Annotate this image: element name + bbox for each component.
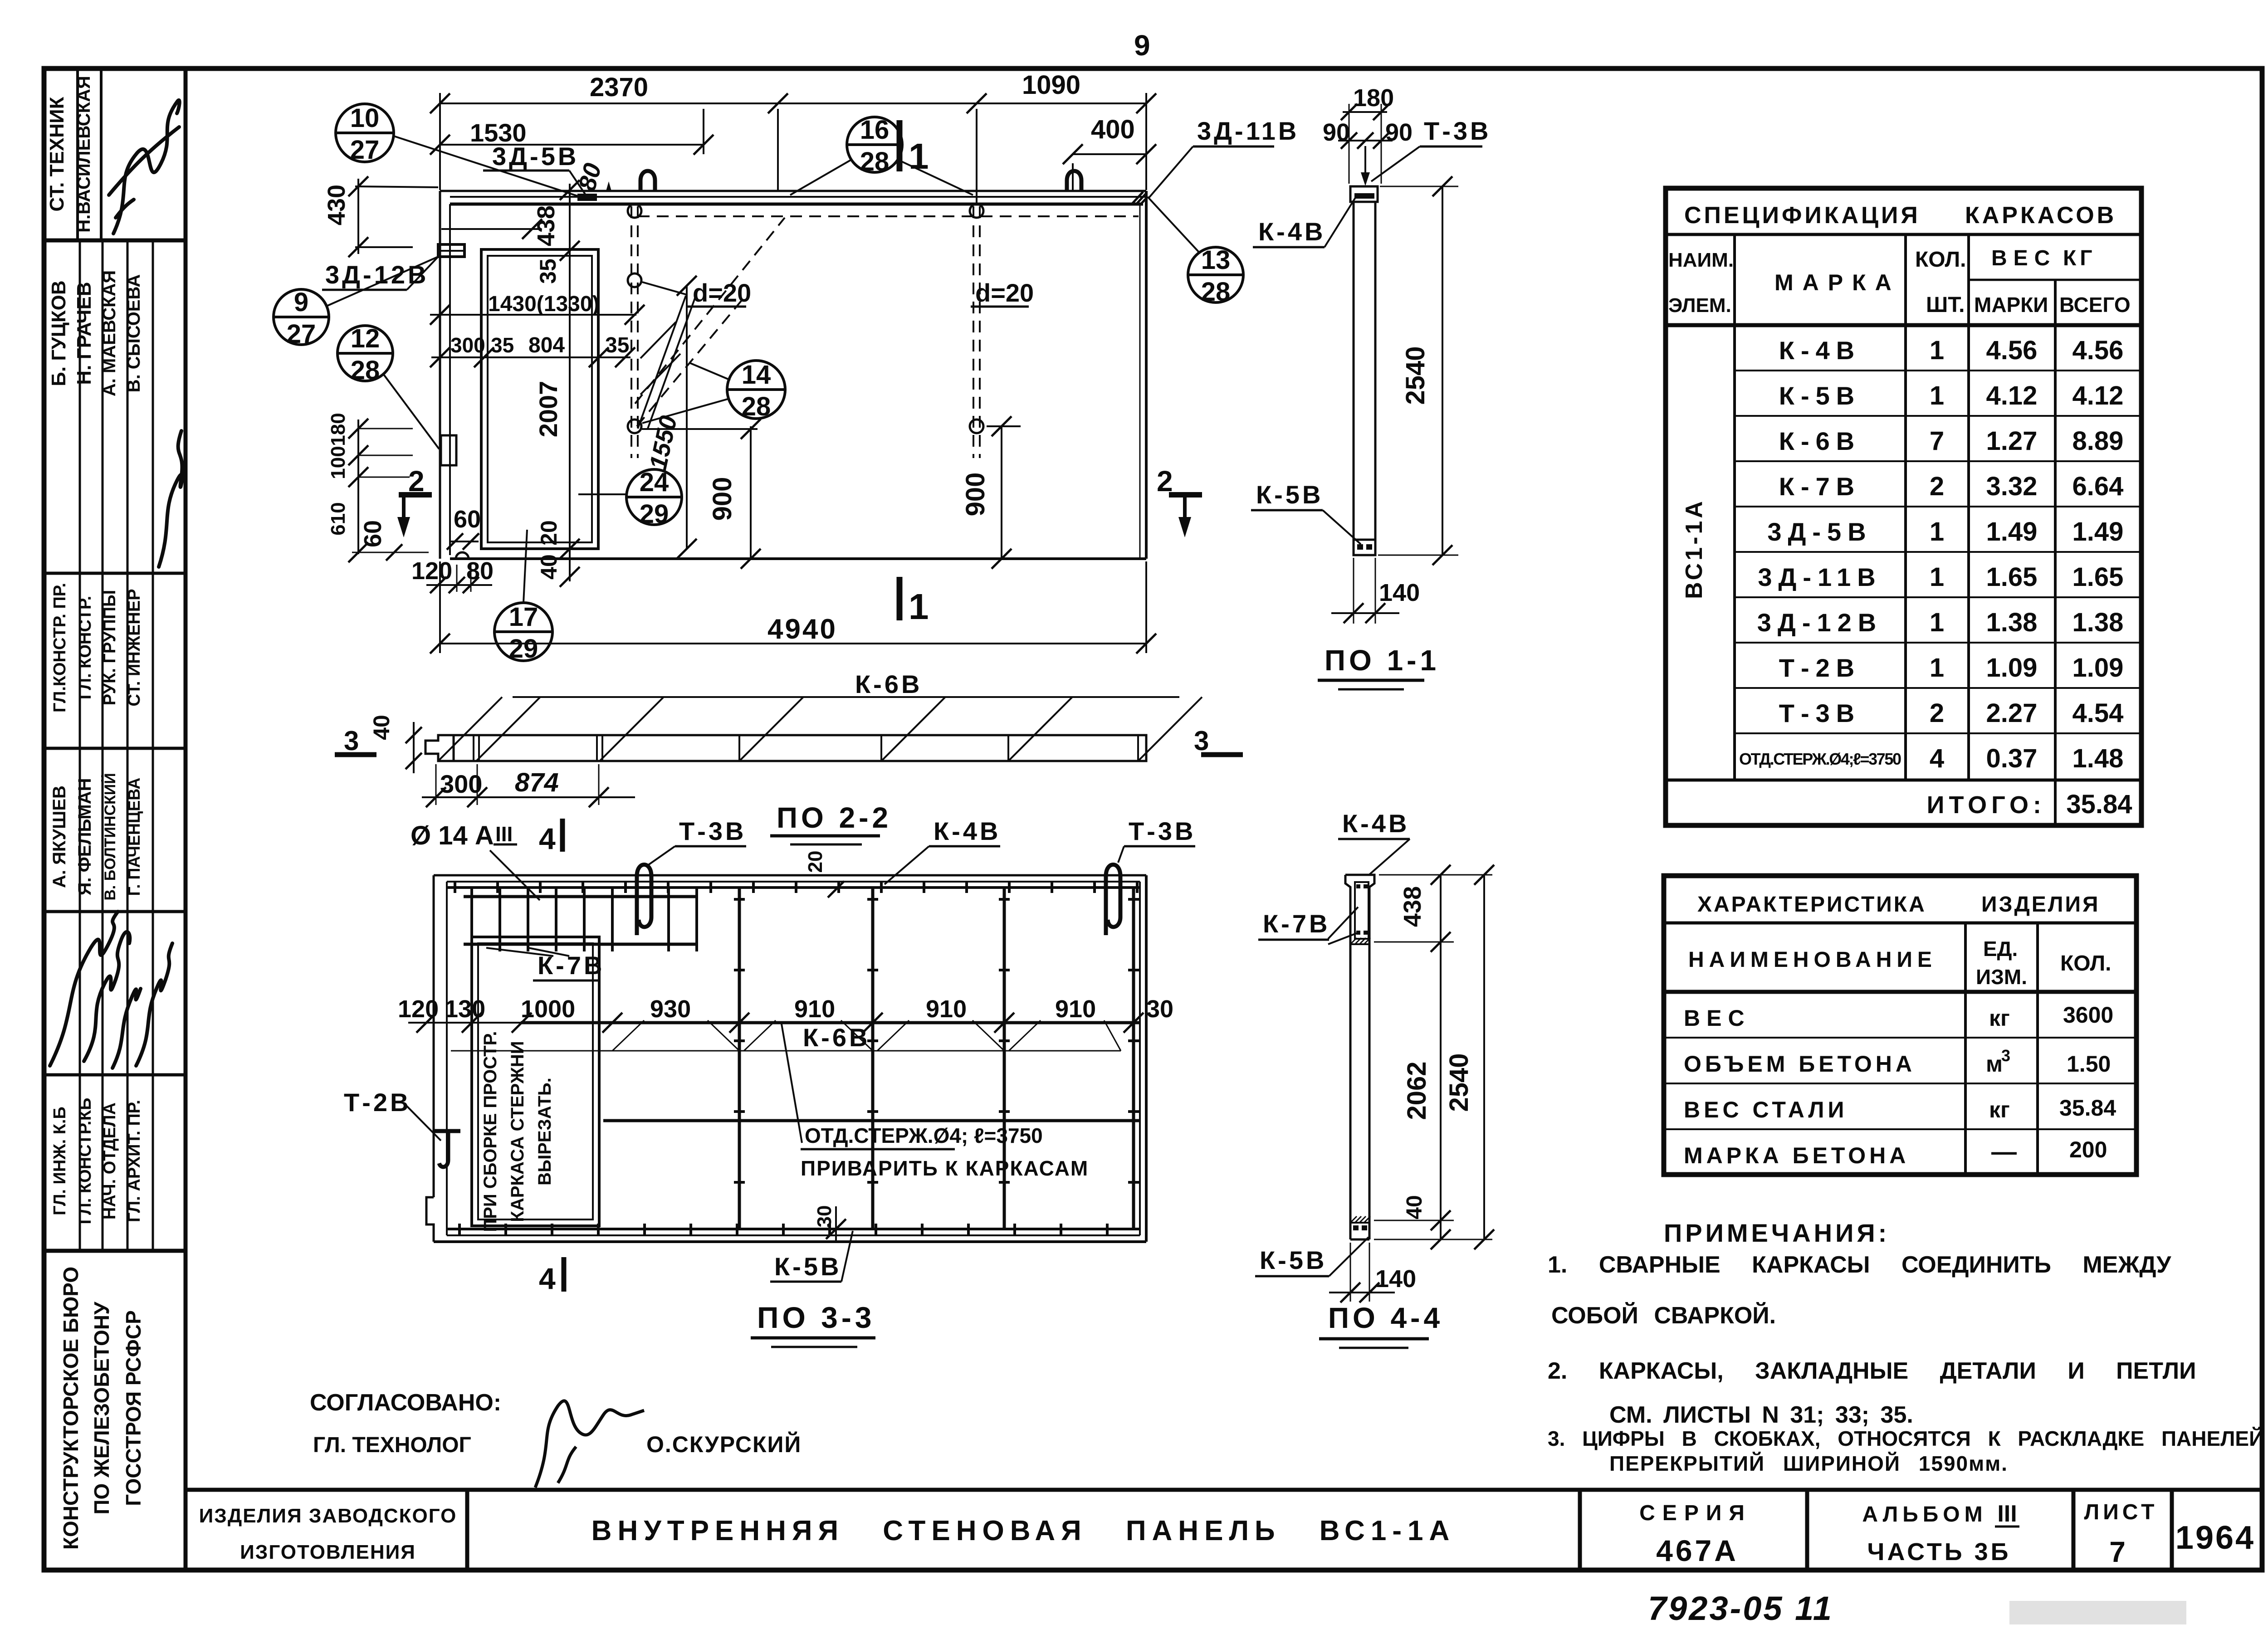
svg-text:4.56: 4.56 <box>1986 336 2038 365</box>
svg-text:27: 27 <box>350 135 380 165</box>
svg-text:МАРКА БЕТОНА: МАРКА БЕТОНА <box>1684 1143 1909 1168</box>
svg-text:1964: 1964 <box>2175 1520 2255 1556</box>
svg-text:В. БОЛТИНСКИЙ: В. БОЛТИНСКИЙ <box>101 773 119 900</box>
svg-text:ХАРАКТЕРИСТИКА: ХАРАКТЕРИСТИКА <box>1697 893 1926 917</box>
svg-text:180: 180 <box>1353 84 1394 112</box>
svg-text:1.38: 1.38 <box>1986 608 2038 637</box>
svg-text:Т-3В: Т-3В <box>1424 117 1491 145</box>
svg-text:28: 28 <box>860 147 890 176</box>
svg-text:140: 140 <box>1379 579 1420 606</box>
svg-text:РУК. ГРУППЫ: РУК. ГРУППЫ <box>100 590 119 706</box>
svg-text:4.12: 4.12 <box>2072 381 2124 410</box>
svg-text:ГЛ. ИНЖ. К.Б: ГЛ. ИНЖ. К.Б <box>50 1107 69 1215</box>
svg-text:7: 7 <box>2109 1536 2126 1568</box>
svg-text:К-5В: К-5В <box>1256 480 1323 509</box>
svg-text:35: 35 <box>605 333 629 357</box>
svg-text:—: — <box>1991 1137 2017 1166</box>
svg-text:16: 16 <box>860 115 890 145</box>
svg-text:28: 28 <box>351 356 380 385</box>
svg-text:СМ. ЛИСТЫ N 31; 33; 35.: СМ. ЛИСТЫ N 31; 33; 35. <box>1609 1402 1913 1428</box>
svg-text:ВЕС: ВЕС <box>1684 1005 1751 1031</box>
svg-text:874: 874 <box>515 768 559 797</box>
svg-text:ПРИМЕЧАНИЯ:: ПРИМЕЧАНИЯ: <box>1664 1219 1890 1247</box>
svg-text:910: 910 <box>926 995 967 1023</box>
svg-text:27: 27 <box>287 319 316 349</box>
svg-text:ЭЛЕМ.: ЭЛЕМ. <box>1668 294 1731 317</box>
svg-text:0.37: 0.37 <box>1986 744 2038 773</box>
svg-text:d=20: d=20 <box>975 278 1034 307</box>
svg-text:НАЧ. ОТДЕЛА: НАЧ. ОТДЕЛА <box>100 1102 119 1219</box>
svg-text:III: III <box>1997 1501 2017 1527</box>
svg-text:300: 300 <box>440 770 482 798</box>
svg-text:1: 1 <box>1930 608 1944 637</box>
svg-text:МАРКА: МАРКА <box>1774 270 1901 295</box>
svg-text:К-6В: К-6В <box>1779 427 1861 455</box>
svg-text:35: 35 <box>535 259 561 284</box>
svg-text:1.49: 1.49 <box>2072 517 2124 546</box>
svg-text:930: 930 <box>650 995 691 1023</box>
svg-text:60: 60 <box>359 520 386 547</box>
svg-text:35.84: 35.84 <box>2059 1095 2116 1121</box>
svg-text:НАИМЕНОВАНИЕ: НАИМЕНОВАНИЕ <box>1688 948 1937 972</box>
svg-text:К-4В: К-4В <box>1342 809 1409 838</box>
svg-text:910: 910 <box>1055 995 1096 1023</box>
svg-text:ПЕРЕКРЫТИЙ ШИРИНОЙ 1590мм.: ПЕРЕКРЫТИЙ ШИРИНОЙ 1590мм. <box>1609 1452 2008 1475</box>
svg-text:КОНСТРУКТОРСКОЕ БЮРО: КОНСТРУКТОРСКОЕ БЮРО <box>59 1267 83 1550</box>
svg-text:КГ: КГ <box>2063 246 2096 270</box>
svg-text:35.84: 35.84 <box>2066 790 2132 819</box>
svg-text:ОБЪЕМ БЕТОНА: ОБЪЕМ БЕТОНА <box>1684 1051 1916 1077</box>
svg-text:400: 400 <box>1091 115 1135 144</box>
svg-text:1: 1 <box>1930 562 1944 592</box>
svg-text:ЛИСТ: ЛИСТ <box>2084 1500 2158 1524</box>
svg-text:24: 24 <box>640 468 669 497</box>
svg-text:ШТ.: ШТ. <box>1926 293 1965 317</box>
svg-text:14: 14 <box>742 360 771 390</box>
svg-text:1: 1 <box>1930 517 1944 546</box>
svg-text:К-5В: К-5В <box>1260 1246 1327 1274</box>
svg-text:Т-3В: Т-3В <box>1129 817 1196 845</box>
svg-text:ГОССТРОЯ РСФСР: ГОССТРОЯ РСФСР <box>122 1310 145 1506</box>
svg-text:1: 1 <box>1930 381 1944 410</box>
svg-text:ВЕС: ВЕС <box>1991 246 2056 270</box>
svg-text:2370: 2370 <box>590 73 648 102</box>
svg-text:ИЗДЕЛИЯ ЗАВОДСКОГО: ИЗДЕЛИЯ ЗАВОДСКОГО <box>199 1505 457 1527</box>
svg-text:2540: 2540 <box>1444 1053 1474 1112</box>
svg-text:60: 60 <box>454 506 481 533</box>
svg-text:ГЛ. АРХИТ. ПР.: ГЛ. АРХИТ. ПР. <box>125 1100 144 1222</box>
svg-text:20: 20 <box>804 851 826 873</box>
svg-text:Т-3В: Т-3В <box>1779 699 1861 727</box>
svg-text:К-5В: К-5В <box>774 1252 841 1281</box>
svg-text:2540: 2540 <box>1401 346 1430 405</box>
svg-text:28: 28 <box>742 392 771 421</box>
svg-text:3600: 3600 <box>2063 1002 2113 1028</box>
svg-text:200: 200 <box>2069 1137 2107 1162</box>
svg-text:1.09: 1.09 <box>2072 653 2124 683</box>
svg-text:ГЛ. ТЕХНОЛОГ: ГЛ. ТЕХНОЛОГ <box>313 1433 471 1457</box>
svg-text:3Д-5В: 3Д-5В <box>1767 517 1872 546</box>
svg-text:ИЗГОТОВЛЕНИЯ: ИЗГОТОВЛЕНИЯ <box>240 1541 416 1563</box>
svg-text:1.09: 1.09 <box>1986 653 2038 683</box>
svg-text:140: 140 <box>1375 1265 1416 1293</box>
svg-text:КОЛ.: КОЛ. <box>1915 248 1966 272</box>
svg-text:ОТД.СТЕРЖ.Ø4; ℓ=3750: ОТД.СТЕРЖ.Ø4; ℓ=3750 <box>805 1124 1043 1147</box>
svg-text:ИЗДЕЛИЯ: ИЗДЕЛИЯ <box>1981 893 2100 917</box>
svg-text:Г. ПАЧЕНЦЕВА: Г. ПАЧЕНЦЕВА <box>125 778 143 896</box>
svg-text:6.64: 6.64 <box>2072 472 2124 501</box>
svg-text:610: 610 <box>327 502 349 535</box>
svg-text:1090: 1090 <box>1022 70 1080 100</box>
svg-text:КАРКАСА СТЕРЖНИ: КАРКАСА СТЕРЖНИ <box>508 1041 528 1222</box>
svg-text:2: 2 <box>1930 472 1944 501</box>
svg-text:3Д-12В: 3Д-12В <box>325 260 429 289</box>
svg-text:d=20: d=20 <box>693 278 751 307</box>
svg-text:900: 900 <box>961 473 990 517</box>
svg-text:2: 2 <box>1930 698 1944 728</box>
svg-text:кг: кг <box>1989 1005 2010 1031</box>
svg-text:1000: 1000 <box>521 995 575 1023</box>
svg-text:К-6В: К-6В <box>855 670 922 698</box>
svg-text:3: 3 <box>344 726 359 756</box>
svg-text:4: 4 <box>539 1262 556 1295</box>
svg-text:1.50: 1.50 <box>2067 1051 2111 1077</box>
svg-text:4.12: 4.12 <box>1986 381 2038 410</box>
svg-text:130: 130 <box>445 995 485 1023</box>
svg-text:40: 40 <box>369 715 394 740</box>
svg-text:К-4В: К-4В <box>1258 217 1325 246</box>
svg-text:40: 40 <box>536 554 562 580</box>
svg-text:438: 438 <box>533 205 560 246</box>
svg-text:90: 90 <box>1323 119 1350 146</box>
svg-text:1430(1330): 1430(1330) <box>488 292 600 316</box>
svg-text:28: 28 <box>1201 277 1231 307</box>
svg-text:2062: 2062 <box>1402 1061 1432 1120</box>
svg-text:12: 12 <box>351 324 380 353</box>
svg-text:430: 430 <box>323 185 350 225</box>
svg-text:К-6В: К-6В <box>803 1023 870 1052</box>
svg-text:4: 4 <box>539 822 556 855</box>
svg-text:ПО 4-4: ПО 4-4 <box>1328 1302 1443 1334</box>
svg-text:180: 180 <box>327 413 349 446</box>
svg-text:СТ. ТЕХНИК: СТ. ТЕХНИК <box>46 97 68 211</box>
svg-text:7: 7 <box>1930 426 1944 456</box>
svg-text:1: 1 <box>1930 336 1944 365</box>
svg-text:ВЕС СТАЛИ: ВЕС СТАЛИ <box>1684 1097 1848 1122</box>
svg-text:К-7В: К-7В <box>1779 472 1861 501</box>
svg-text:МАРКИ: МАРКИ <box>1974 293 2048 317</box>
svg-text:ПО ЖЕЛЕЗОБЕТОНУ: ПО ЖЕЛЕЗОБЕТОНУ <box>90 1301 113 1515</box>
svg-text:3: 3 <box>2001 1046 2010 1065</box>
svg-text:Н.ВАСИЛЕВСКАЯ: Н.ВАСИЛЕВСКАЯ <box>74 76 94 232</box>
svg-text:1: 1 <box>909 586 929 627</box>
svg-text:ВНУТРЕННЯЯ СТЕНОВАЯ ПАНЕЛЬ ВС1: ВНУТРЕННЯЯ СТЕНОВАЯ ПАНЕЛЬ ВС1-1А <box>591 1515 1456 1546</box>
svg-text:3. ЦИФРЫ В СКОБКАХ, ОТНОСЯТСЯ: 3. ЦИФРЫ В СКОБКАХ, ОТНОСЯТСЯ К РАСКЛАДК… <box>1548 1427 2264 1450</box>
svg-text:9: 9 <box>294 288 308 317</box>
svg-text:А. ЯКУШЕВ: А. ЯКУШЕВ <box>49 785 69 888</box>
svg-text:СОГЛАСОВАНО:: СОГЛАСОВАНО: <box>310 1390 501 1416</box>
svg-text:467А: 467А <box>1656 1534 1739 1567</box>
svg-text:ИЗМ.: ИЗМ. <box>1976 965 2027 989</box>
svg-text:1.65: 1.65 <box>2072 562 2124 592</box>
svg-text:7923-05 11: 7923-05 11 <box>1648 1590 1833 1627</box>
svg-text:III: III <box>495 822 513 846</box>
svg-text:10: 10 <box>350 103 380 133</box>
svg-text:Т-3В: Т-3В <box>679 817 746 845</box>
svg-text:1.27: 1.27 <box>1986 426 2038 456</box>
svg-text:Б. ГУЦКОВ: Б. ГУЦКОВ <box>48 280 70 386</box>
svg-text:900: 900 <box>708 477 737 521</box>
svg-text:4.54: 4.54 <box>2072 698 2124 728</box>
svg-text:4.56: 4.56 <box>2072 336 2124 365</box>
svg-text:90: 90 <box>1385 119 1413 146</box>
svg-text:3Д-12В: 3Д-12В <box>1757 608 1882 637</box>
svg-text:3.32: 3.32 <box>1986 472 2038 501</box>
svg-text:К-4В: К-4В <box>934 817 1001 845</box>
svg-text:Я. ФЕЛЬМАН: Я. ФЕЛЬМАН <box>75 778 95 896</box>
svg-text:ГЛ. КОНСТР.: ГЛ. КОНСТР. <box>76 596 95 699</box>
svg-text:К-4В: К-4В <box>1779 336 1861 365</box>
svg-text:СПЕЦИФИКАЦИЯ: СПЕЦИФИКАЦИЯ <box>1684 202 1921 229</box>
svg-text:120: 120 <box>411 557 452 585</box>
svg-text:ВСЕГО: ВСЕГО <box>2059 293 2131 317</box>
svg-text:40: 40 <box>1403 1195 1427 1219</box>
svg-text:4940: 4940 <box>767 614 837 645</box>
svg-text:ПО 1-1: ПО 1-1 <box>1325 644 1440 677</box>
svg-text:СТ. ИНЖЕНЕР: СТ. ИНЖЕНЕР <box>125 589 144 706</box>
svg-text:1. СВАРНЫЕ КАРКАСЫ СОЕДИНИТЬ: 1. СВАРНЫЕ КАРКАСЫ СОЕДИНИТЬ МЕЖДУ <box>1548 1252 2171 1278</box>
svg-text:29: 29 <box>640 499 669 529</box>
svg-text:2.27: 2.27 <box>1986 698 2038 728</box>
svg-text:8.89: 8.89 <box>2072 426 2124 456</box>
svg-text:ЕД.: ЕД. <box>1983 937 2018 961</box>
svg-text:СОБОЙ СВАРКОЙ.: СОБОЙ СВАРКОЙ. <box>1551 1302 1776 1329</box>
svg-text:1: 1 <box>1930 653 1944 683</box>
svg-text:Т-2В: Т-2В <box>1779 654 1861 682</box>
svg-text:100: 100 <box>327 446 349 479</box>
svg-text:3Д-5В: 3Д-5В <box>492 142 579 171</box>
svg-text:К-5В: К-5В <box>1779 381 1861 410</box>
svg-text:1.38: 1.38 <box>2072 608 2124 637</box>
svg-text:КАРКАСОВ: КАРКАСОВ <box>1965 202 2116 229</box>
svg-text:О.СКУРСКИЙ: О.СКУРСКИЙ <box>646 1431 802 1457</box>
svg-text:438: 438 <box>1399 886 1426 927</box>
svg-text:НАИМ.: НАИМ. <box>1668 249 1734 271</box>
svg-text:Ø 14 А: Ø 14 А <box>411 821 494 850</box>
svg-text:3: 3 <box>1194 726 1209 756</box>
svg-text:КОЛ.: КОЛ. <box>2060 951 2111 976</box>
svg-text:В. СЫСОЕВА: В. СЫСОЕВА <box>124 274 144 393</box>
svg-text:Т-2В: Т-2В <box>344 1088 411 1117</box>
svg-text:м: м <box>1986 1051 2003 1077</box>
svg-text:К-7В: К-7В <box>1263 909 1330 938</box>
svg-text:804: 804 <box>528 333 565 357</box>
svg-text:30: 30 <box>813 1205 836 1228</box>
svg-text:А. МАЕВСКАЯ: А. МАЕВСКАЯ <box>99 270 119 396</box>
svg-text:1.49: 1.49 <box>1986 517 2038 546</box>
svg-text:300: 300 <box>450 333 485 357</box>
svg-text:13: 13 <box>1201 245 1231 275</box>
svg-text:3Д-11В: 3Д-11В <box>1758 563 1882 591</box>
svg-text:35: 35 <box>491 333 514 357</box>
svg-text:ПО 2-2: ПО 2-2 <box>777 801 892 834</box>
svg-text:ВС1-1А: ВС1-1А <box>1681 498 1707 599</box>
svg-text:ОТД.СТЕРЖ.Ø4;ℓ=3750: ОТД.СТЕРЖ.Ø4;ℓ=3750 <box>1739 750 1901 768</box>
svg-text:4: 4 <box>1930 744 1944 773</box>
svg-text:1.48: 1.48 <box>2072 744 2124 773</box>
svg-text:20: 20 <box>536 520 562 546</box>
svg-text:17: 17 <box>509 602 538 632</box>
svg-text:ПРИ СБОРКЕ ПРОСТР.: ПРИ СБОРКЕ ПРОСТР. <box>480 1031 500 1232</box>
svg-text:кг: кг <box>1989 1097 2010 1122</box>
svg-text:9: 9 <box>1134 29 1150 62</box>
svg-text:СЕРИЯ: СЕРИЯ <box>1639 1501 1752 1525</box>
svg-text:Н. ГРАЧЕВ: Н. ГРАЧЕВ <box>73 282 95 385</box>
svg-text:2. КАРКАСЫ, ЗАКЛАДНЫЕ ДЕТАЛИ: 2. КАРКАСЫ, ЗАКЛАДНЫЕ ДЕТАЛИ И ПЕТЛИ <box>1548 1358 2196 1384</box>
svg-text:ЧАСТЬ 3Б: ЧАСТЬ 3Б <box>1867 1538 2011 1566</box>
svg-text:ПРИВАРИТЬ К КАРКАСАМ: ПРИВАРИТЬ К КАРКАСАМ <box>801 1156 1089 1180</box>
svg-text:910: 910 <box>794 995 835 1023</box>
svg-text:ИТОГО:: ИТОГО: <box>1927 791 2046 819</box>
svg-text:2007: 2007 <box>534 381 562 438</box>
svg-text:ГЛ.КОНСТР. ПР.: ГЛ.КОНСТР. ПР. <box>50 583 69 712</box>
svg-text:ПО 3-3: ПО 3-3 <box>757 1301 875 1334</box>
svg-text:1.65: 1.65 <box>1986 562 2038 592</box>
svg-text:ГЛ. КОНСТР.КБ: ГЛ. КОНСТР.КБ <box>76 1098 95 1224</box>
svg-text:30: 30 <box>1146 995 1173 1023</box>
svg-text:120: 120 <box>398 995 439 1023</box>
svg-text:3Д-11В: 3Д-11В <box>1197 117 1299 145</box>
svg-text:АЛЬБОМ: АЛЬБОМ <box>1862 1502 1987 1527</box>
svg-text:29: 29 <box>509 634 538 663</box>
svg-text:ВЫРЕЗАТЬ.: ВЫРЕЗАТЬ. <box>535 1078 555 1185</box>
